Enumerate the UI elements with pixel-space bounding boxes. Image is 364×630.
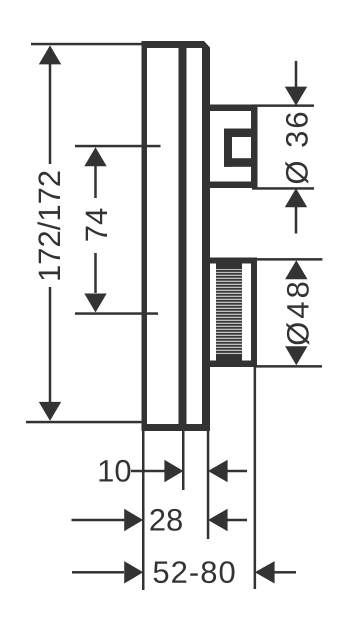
plate right edge: [202, 55, 210, 431]
stop collar right edge: [251, 105, 258, 189]
upper dim line: [49, 63, 52, 164]
plate bottom edge: [142, 424, 211, 431]
bottom extension line: [75, 312, 158, 315]
lower dim line: [94, 253, 97, 293]
bottom arrow: [84, 294, 106, 313]
plate top edge: [142, 41, 205, 48]
leader line: [131, 470, 165, 473]
lower dim line: [295, 206, 298, 234]
right-pointing arrow: [124, 509, 143, 531]
right-pointing arrow: [124, 561, 143, 583]
dimension 74: [75, 145, 161, 315]
bottom extension line: [255, 365, 322, 368]
top extension line: [252, 104, 314, 107]
lower dim line: [49, 287, 52, 403]
left leader line: [72, 519, 125, 522]
cap right edge: [251, 258, 257, 368]
upper dim line: [94, 165, 97, 198]
spindle left edge: [224, 129, 232, 167]
left-pointing arrow: [208, 509, 228, 531]
dimension 52-80: [72, 561, 296, 583]
extension line plate left: [142, 431, 145, 590]
knurl bottom cap: [216, 353, 242, 361]
top arrow: [84, 147, 106, 166]
label 74: [86, 209, 107, 241]
spindle bottom edge: [224, 158, 251, 167]
dimension 172/172: [26, 43, 144, 424]
dimension 10: [100, 460, 248, 482]
up arrow: [285, 188, 307, 207]
cap bottom edge: [210, 361, 257, 368]
right-pointing arrow: [164, 460, 183, 482]
extension line plate right: [207, 431, 210, 539]
label Ø 36: [285, 113, 308, 184]
top extension line: [75, 145, 161, 148]
bottom extension line: [252, 187, 314, 190]
bottom arrow: [39, 402, 61, 421]
extension line cap face: [254, 367, 257, 589]
stop collar top edge: [210, 105, 258, 112]
bottom extension line: [26, 421, 144, 424]
dimension Ø48: [255, 258, 322, 368]
top extension line: [255, 258, 322, 261]
label 172/172: [38, 172, 61, 280]
upper dim line: [295, 61, 298, 89]
plate left edge: [142, 41, 148, 431]
left-pointing arrow: [208, 460, 228, 482]
knurl stripes: [216, 269, 242, 355]
knurl top cap: [216, 264, 242, 273]
up arrow: [285, 260, 307, 279]
down arrow: [285, 87, 307, 106]
dimension 28: [72, 509, 248, 531]
right tail line: [274, 571, 296, 574]
spindle top edge: [224, 129, 251, 138]
label 52-80: [154, 561, 235, 583]
right tail line: [227, 470, 247, 473]
label 28: [150, 509, 181, 531]
cap top edge: [210, 258, 257, 264]
extension line plate inner: [182, 431, 185, 490]
left leader line: [72, 571, 124, 574]
plate top-right chamfer: [196, 41, 210, 62]
stop collar bottom edge: [210, 182, 258, 189]
right tail line: [227, 519, 247, 522]
dimension Ø36: [252, 61, 314, 234]
down arrow: [285, 346, 307, 365]
top arrow: [39, 45, 61, 64]
label 10: [100, 460, 131, 482]
plate inner line: [179, 46, 187, 424]
label Ø 48: [286, 283, 309, 345]
top extension line: [31, 43, 142, 46]
left-pointing arrow: [255, 561, 275, 583]
